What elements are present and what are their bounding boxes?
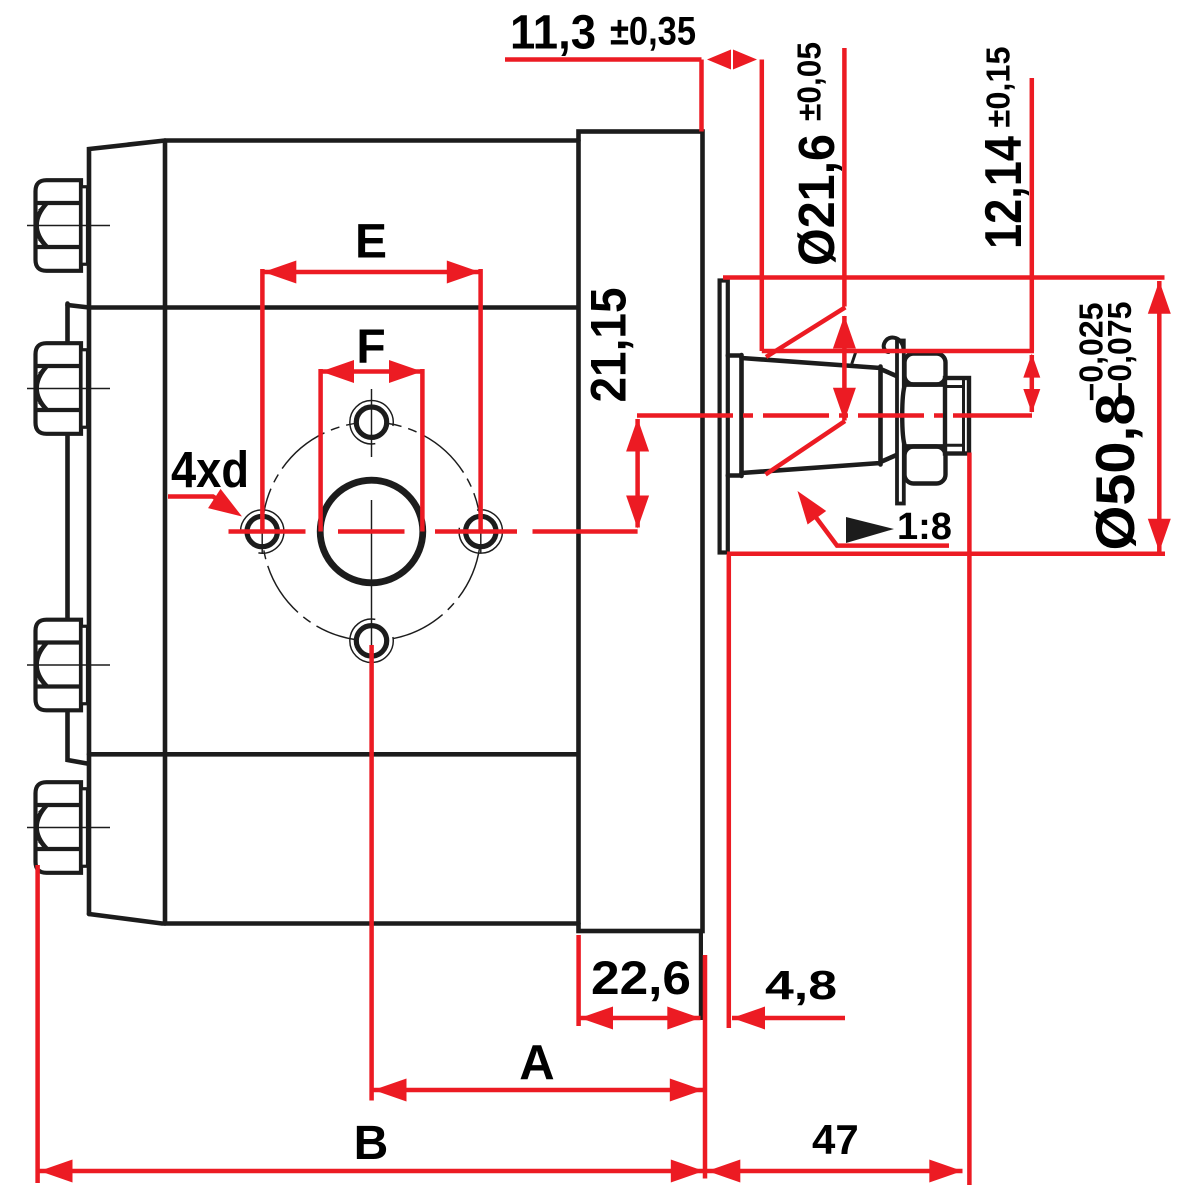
svg-text:47: 47	[812, 1116, 859, 1163]
svg-text:±0,35: ±0,35	[610, 10, 696, 54]
svg-text:−0,075: −0,075	[1101, 302, 1138, 401]
svg-text:±0,15: ±0,15	[980, 47, 1017, 128]
svg-text:±0,05: ±0,05	[791, 42, 828, 121]
svg-text:4,8: 4,8	[765, 962, 837, 1008]
svg-text:Ø21,6: Ø21,6	[788, 134, 845, 266]
svg-text:1:8: 1:8	[897, 506, 952, 548]
svg-text:4xd: 4xd	[171, 441, 249, 498]
svg-text:21,15: 21,15	[581, 288, 637, 403]
svg-text:Ø50,8: Ø50,8	[1084, 394, 1146, 551]
svg-text:A: A	[519, 1036, 554, 1090]
svg-text:F: F	[356, 321, 385, 374]
svg-text:11,3: 11,3	[510, 7, 596, 60]
svg-text:22,6: 22,6	[591, 951, 691, 1004]
svg-text:B: B	[354, 1117, 389, 1170]
svg-text:E: E	[355, 216, 387, 269]
svg-text:12,14: 12,14	[975, 136, 1033, 249]
